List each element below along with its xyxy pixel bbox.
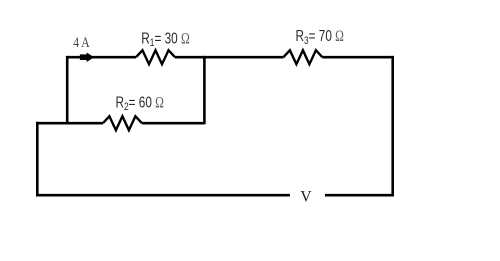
current arrow (4 A) on top-left wire xyxy=(80,53,93,61)
wire: top horizontal middle segment (R1 to R3) xyxy=(175,56,283,59)
wire: middle horizontal right segment (R2 to junction) xyxy=(142,122,205,125)
svg-text:R3= 70 Ω: R3= 70 Ω xyxy=(296,28,344,47)
svg-text:R1= 30 Ω: R1= 30 Ω xyxy=(141,30,189,49)
wire: junction vertical (right of R1/R2 parallel pair) xyxy=(203,56,206,124)
resistor R1 zigzag xyxy=(136,50,175,64)
resistor R3 zigzag xyxy=(283,50,322,64)
label: R2 = 60 ohm xyxy=(116,94,164,113)
svg-text:V: V xyxy=(300,189,312,206)
label: R1 = 30 ohm xyxy=(141,30,189,49)
resistor R2 zigzag xyxy=(103,116,142,130)
wire: top horizontal right segment (R3 to right corner) xyxy=(322,56,392,59)
svg-text:R2= 60 Ω: R2= 60 Ω xyxy=(116,94,164,113)
wire: bottom horizontal left segment (to V gap) xyxy=(36,194,290,197)
label: R3 = 70 ohm xyxy=(296,28,344,47)
wire: inner left vertical (node A down to middle wire) xyxy=(66,56,69,123)
wire: top horizontal left segment (node A to R1) xyxy=(67,56,136,59)
wire: left outer vertical xyxy=(36,122,39,197)
wire: right outer vertical xyxy=(391,56,394,197)
svg-text:4 A: 4 A xyxy=(73,35,90,51)
wire: middle horizontal left segment (outer corner to R2) xyxy=(36,122,103,125)
wire: bottom horizontal right segment (V gap to right corner) xyxy=(325,194,394,197)
